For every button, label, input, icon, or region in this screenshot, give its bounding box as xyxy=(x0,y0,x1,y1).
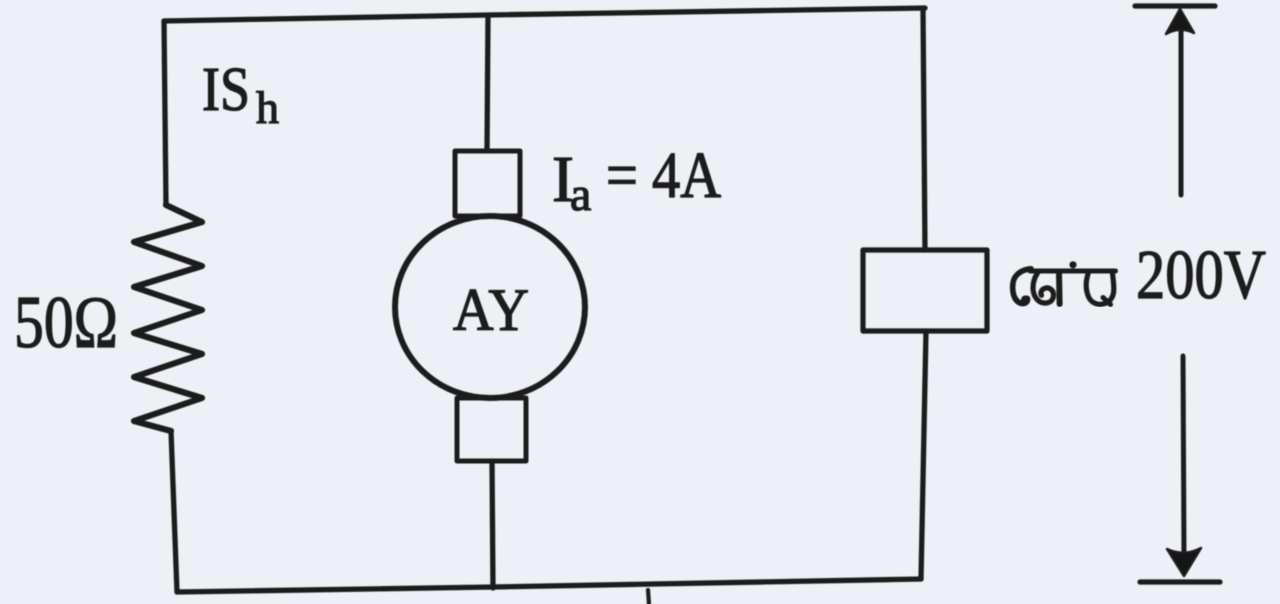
wire top xyxy=(164,8,925,21)
svg-text:AY: AY xyxy=(453,277,529,343)
voltage arrow upper shaft xyxy=(1179,28,1184,195)
brush top xyxy=(455,151,520,216)
voltage arrow lower head xyxy=(1167,548,1201,576)
wire right upper xyxy=(923,8,925,250)
brush bottom xyxy=(457,398,526,461)
wire bottom xyxy=(177,579,921,592)
wire left lower xyxy=(171,431,177,592)
voltage arrow upper head xyxy=(1166,9,1194,34)
load box xyxy=(863,250,987,331)
resistor Rsh 50Ω xyxy=(134,205,202,431)
svg-text:= 4A: = 4A xyxy=(606,139,721,212)
voltage arrow top bar xyxy=(1135,3,1215,8)
armature circle xyxy=(395,216,585,398)
voltage arrow lower shaft xyxy=(1183,356,1184,556)
svg-text:IS: IS xyxy=(202,56,250,124)
label লোড (Bengali word "load", drawn as vector strokes) xyxy=(1013,261,1116,304)
wire armature top xyxy=(487,15,488,151)
wire left upper xyxy=(164,21,166,205)
svg-text:a: a xyxy=(570,168,591,221)
wire armature bottom xyxy=(492,461,493,588)
svg-text:50Ω: 50Ω xyxy=(14,282,118,364)
svg-text:h: h xyxy=(256,82,279,133)
svg-text:200V: 200V xyxy=(1136,237,1266,314)
voltage arrow bottom bar xyxy=(1140,579,1220,584)
wire right lower xyxy=(921,331,926,579)
tick mark bottom center xyxy=(648,590,649,604)
